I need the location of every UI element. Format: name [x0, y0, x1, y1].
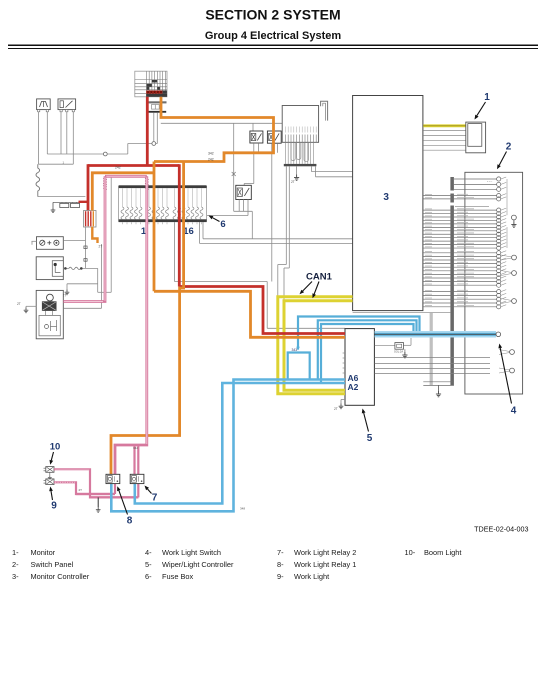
ground for diode pair: [52, 202, 54, 207]
box2 right circle group A: [512, 255, 517, 260]
wire red left drop with connector hatch: [87, 164, 90, 211]
svg-text:Monitor Controller: Monitor Controller: [31, 572, 90, 581]
svg-text:242: 242: [115, 166, 121, 170]
wire box5 outputs gray: [375, 358, 491, 374]
wire red main from grid: [146, 97, 149, 166]
wire pink to monitor unit: [63, 176, 105, 301]
relay box RA: [250, 131, 263, 143]
wire panel to controller y171: [311, 166, 313, 171]
wire blue U loop 343: [288, 353, 310, 380]
wire relay RB down long: [271, 143, 273, 281]
svg-text:6: 6: [220, 219, 225, 230]
wire pink main vertical to relays: [115, 176, 147, 475]
wire CAN yellow to monitor connector: [423, 124, 466, 127]
wire pink bus overlap: [90, 496, 138, 498]
legend text: [12, 548, 461, 581]
svg-text:SOL:2A: SOL:2A: [394, 350, 403, 354]
svg-text:4: 4: [511, 406, 517, 417]
box2 input rows from controller: [423, 194, 501, 207]
wire pink below relays: [114, 483, 116, 495]
wire yellow CAN outer: [278, 297, 353, 394]
double rule under title: [8, 44, 538, 46]
wire horizontal y164: [39, 163, 74, 165]
svg-text:10-: 10-: [405, 548, 416, 557]
wire blue row2: [318, 320, 417, 379]
svg-text:2T: 2T: [17, 302, 21, 306]
wire orange below connector stub: [92, 227, 97, 243]
wire blue row3: [321, 324, 414, 383]
pink connector hatch marks: [103, 179, 148, 190]
boom light 10 icon: [44, 467, 55, 480]
wire orange branch down x181: [111, 162, 184, 476]
svg-text:Work Light: Work Light: [294, 572, 329, 581]
wire blue row1: [298, 317, 420, 350]
wire panel ground: [296, 166, 298, 174]
wire orange branch left x158: [153, 162, 156, 292]
junction box L2: [36, 257, 63, 280]
svg-text:A2: A2: [348, 382, 359, 392]
red connector hatch marks: [103, 179, 148, 190]
svg-text:Switch Panel: Switch Panel: [31, 560, 74, 569]
wire horizontal y196 to red: [38, 196, 86, 198]
wire relay RA down to relay RC: [253, 143, 255, 183]
svg-text:SECTION 2 SYSTEM: SECTION 2 SYSTEM: [205, 7, 340, 23]
wire controller to monitor connector rows: [423, 131, 466, 151]
svg-text:2-: 2-: [12, 560, 19, 569]
svg-text:9: 9: [51, 501, 57, 512]
wire gauge A pins down: [38, 112, 40, 164]
wire vertical x233 with junction: [233, 123, 235, 211]
switch panel pins to bus: [285, 142, 313, 164]
box2 switch rows top: [454, 177, 501, 192]
wire red horizontal y165: [88, 164, 179, 167]
wire switch B pins down: [60, 112, 62, 154]
svg-text:CAN1: CAN1: [306, 272, 333, 283]
wire long pair to controller: [202, 216, 204, 239]
wire cyan relay8 loop: [111, 380, 345, 512]
switch panel connector box 2: [465, 172, 523, 394]
svg-text:7-: 7-: [277, 548, 284, 557]
wire horizontal y154 with connector circle: [47, 153, 103, 155]
connector bar light box 2: [430, 313, 433, 385]
box2 right circle group C: [512, 299, 517, 304]
wire pink boom light: [54, 469, 138, 497]
wire orange to controller5: [154, 291, 345, 337]
box5 left pin ticks: [343, 353, 345, 373]
solenoid ground: [404, 349, 406, 352]
wire orange from grid to switch area: [154, 97, 274, 162]
wire pink horizontal y176: [105, 175, 147, 178]
svg-text:6-: 6-: [145, 572, 152, 581]
box2 mid rows: [423, 251, 501, 288]
svg-text:Work Light Switch: Work Light Switch: [162, 548, 221, 557]
switch panel hook wire: [321, 101, 328, 120]
wire vertical connector x85: [85, 227, 87, 268]
wire panel down to CAN corner B: [288, 166, 290, 268]
wire wavy from box L2: [63, 267, 97, 269]
wire RC bottom to pair: [234, 210, 253, 212]
blue arrow mark: [296, 347, 300, 351]
box2 right ground group top: [512, 215, 517, 220]
work light relay 2 (7): [130, 474, 144, 483]
svg-text:1: 1: [484, 92, 490, 103]
work light 9 icon: [44, 479, 55, 485]
wire grid to relays horizontal y123: [161, 122, 282, 124]
wire panel to controller y176: [315, 166, 317, 177]
component box top-left A (gauge): [37, 99, 51, 112]
wire box L1 to connector: [63, 240, 85, 242]
svg-text:1-: 1-: [12, 548, 19, 557]
component box top-left B (switch): [58, 99, 76, 112]
svg-text:342: 342: [133, 446, 138, 450]
resistor coil symbol left: [36, 164, 40, 196]
wire blue thick band to box2: [375, 331, 497, 338]
svg-text:8: 8: [127, 516, 133, 527]
box2 right circle group B: [512, 271, 517, 276]
svg-text:342: 342: [208, 152, 214, 156]
wire loop to ground y283: [97, 268, 99, 292]
box2 keypad rows: [423, 208, 501, 250]
svg-text:3: 3: [383, 192, 389, 203]
connector grid block lower: [146, 101, 166, 112]
ground stub on pink bus: [97, 497, 99, 507]
relay box RC: [236, 185, 252, 199]
box5 bottom stub ground: [341, 399, 345, 401]
svg-text:343: 343: [292, 348, 298, 352]
svg-text:10: 10: [50, 442, 61, 453]
switch panel box: [282, 106, 318, 143]
svg-text:Group 4 Electrical System: Group 4 Electrical System: [205, 30, 342, 42]
svg-text:Monitor: Monitor: [31, 548, 56, 557]
wire pink taps relay 7: [133, 445, 135, 476]
wire fusebox feed y281: [174, 222, 176, 281]
box2 lower rows: [423, 290, 501, 309]
wire gray below pink to monitor unit: [63, 307, 101, 309]
svg-text:3-: 3-: [12, 572, 19, 581]
connector box red orange striped: [84, 211, 97, 228]
monitor connector 1: [466, 122, 486, 153]
svg-text:Work Light Relay 2: Work Light Relay 2: [294, 548, 356, 557]
svg-text:5-: 5-: [145, 560, 152, 569]
svg-text:8-: 8-: [277, 560, 284, 569]
svg-text:2T: 2T: [334, 407, 338, 411]
svg-text:Boom Light: Boom Light: [424, 548, 461, 557]
wire pink work light: [54, 482, 115, 494]
relay box RB: [267, 131, 281, 143]
connector bar dark box 2: [450, 177, 454, 191]
wire yellow CAN inner: [284, 301, 353, 390]
fuse box 6: [119, 185, 207, 224]
monitor unit box bottom-left: [36, 290, 63, 338]
box2 bottom rows and ground: [423, 381, 454, 383]
box2 row label marks: [425, 194, 474, 305]
svg-text:2T: 2T: [99, 245, 103, 249]
box2 switch contact diagonals: [501, 177, 507, 307]
wire gray vertical x111: [110, 177, 112, 292]
wire box5 solenoid row: [375, 344, 395, 346]
monitor controller box 3: [353, 96, 423, 311]
svg-text:348: 348: [240, 507, 245, 511]
wire red to controller5: [179, 287, 345, 334]
svg-text:7: 7: [152, 493, 158, 504]
wiper light controller box 5: [345, 329, 374, 406]
wire panel down to CAN corner A: [285, 166, 287, 264]
wire horizontal y143 with connector circle: [128, 143, 152, 145]
svg-text:4-: 4-: [145, 548, 152, 557]
switch panel bus bar: [284, 164, 317, 166]
connector grid block top: [135, 71, 167, 97]
svg-text:Work Light Relay 1: Work Light Relay 1: [294, 560, 356, 569]
wire red fusebox drop: [178, 164, 181, 286]
ground left of monitor unit: [26, 305, 36, 307]
wire red stub to diodes: [79, 201, 89, 203]
junction box L1: [32, 237, 64, 250]
svg-text:2T: 2T: [291, 180, 295, 184]
svg-text:TDEE-02-04-003: TDEE-02-04-003: [474, 525, 528, 534]
solenoid component: [395, 343, 404, 350]
svg-text:Fuse Box: Fuse Box: [162, 572, 194, 581]
box2 right circle group D: [499, 350, 514, 374]
svg-text:2: 2: [506, 142, 512, 153]
svg-text:242: 242: [208, 158, 214, 162]
work light relay 1 (8): [106, 474, 120, 483]
svg-text:5: 5: [367, 433, 373, 444]
wire orange branch A to connector: [92, 173, 154, 211]
wire cyan relay7 loop: [135, 383, 345, 504]
wire relay RC to panel loop: [247, 200, 249, 216]
diode pair symbols: [53, 202, 80, 207]
svg-text:Wiper/Light Controller: Wiper/Light Controller: [162, 560, 234, 569]
wire gray below controller y312: [353, 311, 451, 313]
svg-text:9-: 9-: [277, 572, 284, 581]
svg-text:2T: 2T: [79, 488, 83, 492]
